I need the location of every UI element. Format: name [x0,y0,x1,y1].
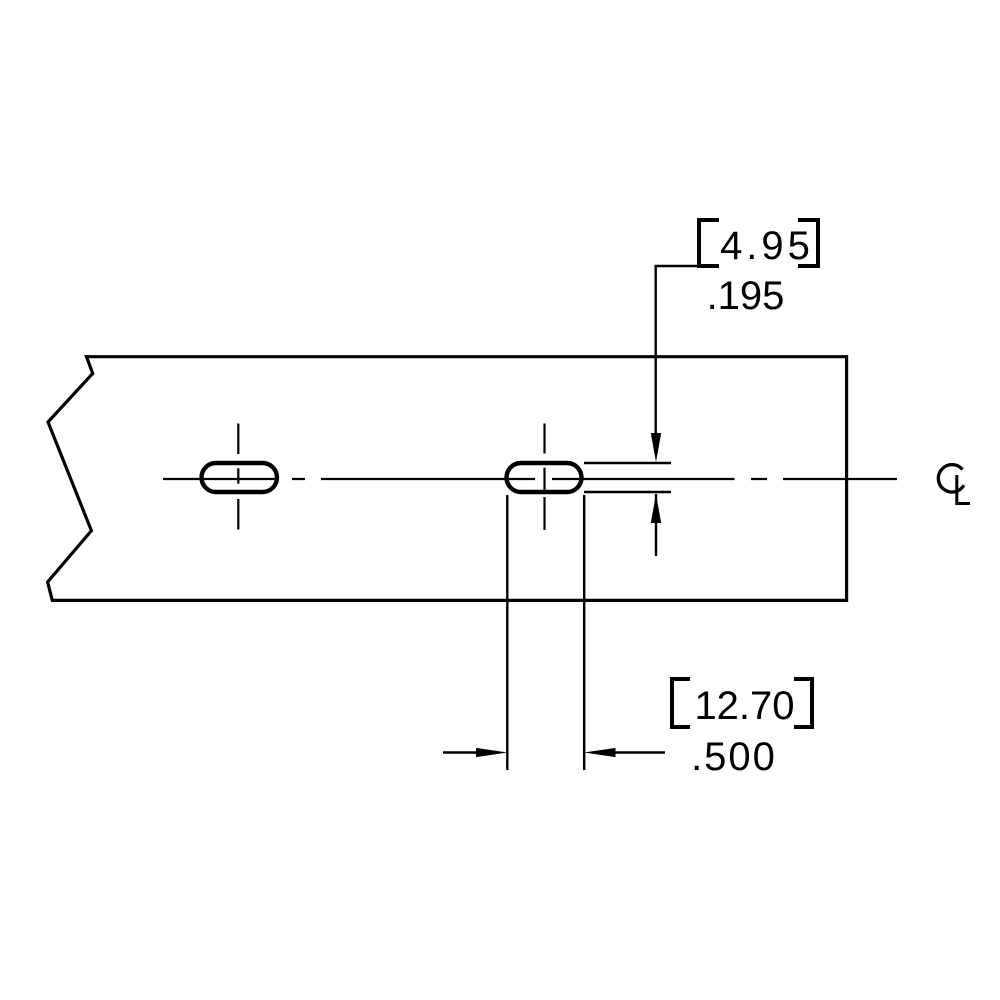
svg-text:.500: .500 [691,735,777,779]
svg-text:12.70: 12.70 [694,684,794,728]
svg-text:.195: .195 [707,274,785,318]
svg-text:4.95: 4.95 [720,224,814,268]
